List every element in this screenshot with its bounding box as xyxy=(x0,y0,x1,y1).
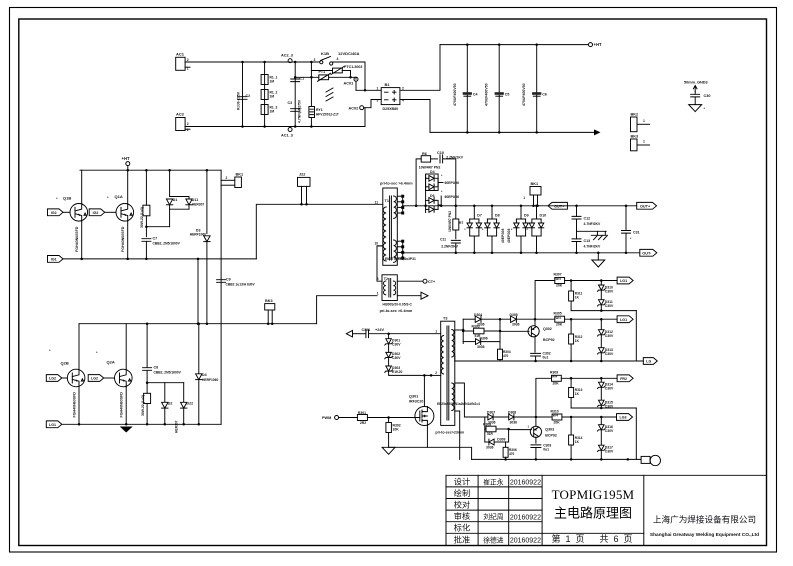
resistor R8 xyxy=(144,393,151,403)
svg-text:W/4: W/4 xyxy=(552,375,558,379)
wire secondary bottom rail xyxy=(403,252,640,254)
svg-text:C30V: C30V xyxy=(605,290,614,294)
connector AC1 xyxy=(176,57,185,70)
svg-text:LG1: LG1 xyxy=(620,279,627,283)
svg-text:审核: 审核 xyxy=(454,511,470,521)
svg-text:FGH40N60SFD: FGH40N60SFD xyxy=(73,392,77,418)
wire snubber top loop xyxy=(416,159,421,206)
wire D2 bar xyxy=(147,382,184,384)
svg-text:470: 470 xyxy=(509,452,515,456)
svg-text:30W-22 (1u3): 30W-22 (1u3) xyxy=(140,207,144,228)
svg-text:R6: R6 xyxy=(422,152,427,156)
resistor R303 xyxy=(463,330,473,332)
capacitor C31 xyxy=(625,205,628,208)
svg-text:J22: J22 xyxy=(299,173,305,177)
capacitor C7 xyxy=(142,239,151,242)
svg-text:50mm_GND3: 50mm_GND3 xyxy=(684,81,708,85)
svg-text:1M: 1M xyxy=(270,95,275,99)
wire blockC input from T301 xyxy=(455,383,473,417)
svg-text:1M: 1M xyxy=(270,110,275,114)
svg-text:C30V: C30V xyxy=(392,343,401,347)
zener D302 xyxy=(388,345,390,353)
zener D310 xyxy=(600,281,602,285)
resistor R6 xyxy=(421,156,430,162)
svg-text:Q1B: Q1B xyxy=(63,196,71,201)
svg-text:FGH40N60SFD: FGH40N60SFD xyxy=(120,392,124,418)
terminal CT+ xyxy=(397,280,423,282)
svg-text:R7: R7 xyxy=(459,221,463,225)
wire blockA left rail xyxy=(462,319,464,343)
svg-text:B1: B1 xyxy=(385,82,391,87)
svg-text:BK1: BK1 xyxy=(236,172,244,176)
svg-text:FR2: FR2 xyxy=(620,377,627,381)
capacitor C303 xyxy=(531,445,541,448)
svg-text:IG1: IG1 xyxy=(51,258,57,262)
svg-text:D307: D307 xyxy=(487,410,495,414)
capacitor C1 xyxy=(291,79,300,82)
svg-text:第 1 页 共 6 页: 第 1 页 共 6 页 xyxy=(551,533,632,544)
svg-text:10W/4R7 PN2: 10W/4R7 PN2 xyxy=(448,211,452,232)
svg-text:徐德进: 徐德进 xyxy=(483,535,504,544)
gate flag IG2 Q1A xyxy=(89,209,105,216)
zener D316 xyxy=(600,417,602,425)
svg-text:C7: C7 xyxy=(153,236,158,240)
resistor R7 xyxy=(455,206,457,219)
svg-text:C30V: C30V xyxy=(605,450,614,454)
svg-text:4.7NF/2KV: 4.7NF/2KV xyxy=(584,244,602,248)
diode D11 xyxy=(186,199,192,205)
transformer T301 xyxy=(441,321,455,425)
T1 secondary pins top xyxy=(397,195,402,197)
rectifier diode pair D10 xyxy=(535,205,538,208)
svg-text:40EPS08: 40EPS08 xyxy=(501,229,505,243)
wire node to C1 line xyxy=(294,62,296,127)
svg-text:51R: 51R xyxy=(487,432,494,436)
svg-text:D1: D1 xyxy=(173,198,178,202)
node AC2_3 xyxy=(288,59,292,63)
svg-text:1: 1 xyxy=(523,196,525,200)
wire AC02 to bridge xyxy=(364,108,366,127)
node AC01 xyxy=(354,77,358,81)
svg-text:崔正永: 崔正永 xyxy=(483,477,504,486)
net flag blockA return xyxy=(643,358,657,365)
svg-text:20160922: 20160922 xyxy=(510,514,541,521)
transformer T2 xyxy=(382,275,397,301)
svg-text:LG: LG xyxy=(646,360,651,364)
relay coil RY1 xyxy=(309,107,315,118)
wire rail corner to BK1 line xyxy=(220,170,222,424)
svg-text:C6: C6 xyxy=(542,93,547,97)
rectifier diode pair D9 xyxy=(520,205,523,208)
svg-text:30W-22 (1u3): 30W-22 (1u3) xyxy=(141,395,145,416)
resistor R4 snubber xyxy=(145,169,148,172)
bridge rectifier B1 xyxy=(381,88,400,105)
svg-text:BCP92: BCP92 xyxy=(543,338,555,342)
svg-text:Q301: Q301 xyxy=(409,395,418,399)
svg-text:470UF400V50: 470UF400V50 xyxy=(453,83,457,106)
svg-text:1: 1 xyxy=(643,140,645,144)
svg-text:10W/4R7 PN2: 10W/4R7 PN2 xyxy=(419,165,441,169)
svg-text:BK3: BK3 xyxy=(631,135,639,139)
svg-text:设计: 设计 xyxy=(454,476,470,486)
svg-text:T3: T3 xyxy=(443,317,447,321)
svg-text:1: 1 xyxy=(377,87,379,91)
svg-text:BCP92: BCP92 xyxy=(545,434,557,438)
title block outline xyxy=(446,475,767,545)
wire blockA bottom rail xyxy=(455,360,644,362)
svg-text:K1B: K1B xyxy=(321,51,329,56)
node AC02 xyxy=(360,106,364,110)
svg-text:CBB2, 2N5/1600V: CBB2, 2N5/1600V xyxy=(153,241,181,245)
svg-text:FGH40N60SFD: FGH40N60SFD xyxy=(121,226,125,252)
power flag +24V xyxy=(346,330,352,337)
wire D pair to R4 line xyxy=(169,209,171,227)
svg-text:3036: 3036 xyxy=(512,323,520,327)
svg-text:20K: 20K xyxy=(554,420,561,424)
svg-text:Shanghai Greatway Welding Equi: Shanghai Greatway Welding Equipment CO.,… xyxy=(650,532,759,538)
svg-text:D9: D9 xyxy=(524,214,529,218)
svg-text:绘制: 绘制 xyxy=(454,488,470,498)
connector BK3 top right xyxy=(631,139,638,151)
svg-text:D304: D304 xyxy=(474,313,482,317)
svg-text:D8: D8 xyxy=(495,214,500,218)
svg-text:C10: C10 xyxy=(437,151,444,155)
capacitor C8 snubber xyxy=(146,322,149,325)
svg-text:D25XB80: D25XB80 xyxy=(383,107,399,111)
zener D303 xyxy=(388,358,390,366)
capacitor C30 xyxy=(694,92,696,95)
resistor R312 xyxy=(570,319,572,334)
capacitor C10 xyxy=(440,155,443,163)
svg-text:R308: R308 xyxy=(483,422,491,426)
emitter rail lower (LG1) xyxy=(46,421,62,428)
svg-text:OUT+: OUT+ xyxy=(554,205,565,209)
svg-text:CT+: CT+ xyxy=(428,280,436,284)
svg-text:W/4: W/4 xyxy=(556,277,562,281)
rectifier diode pair D8 xyxy=(491,205,494,208)
net flag LG3 xyxy=(617,414,633,421)
svg-text:3036: 3036 xyxy=(510,421,518,425)
svg-text:OUT+: OUT+ xyxy=(640,205,651,209)
svg-text:3: 3 xyxy=(314,58,316,62)
ground under output rail xyxy=(597,253,599,260)
resistor R305 xyxy=(555,316,565,322)
svg-text:1: 1 xyxy=(435,330,437,334)
emitter rail upper (IG1) xyxy=(48,256,64,263)
capacitor C2 xyxy=(242,62,244,127)
wire blockC bottom rail xyxy=(472,458,641,460)
title block column lines xyxy=(478,475,644,545)
svg-text:11: 11 xyxy=(375,201,379,205)
ground under R302 xyxy=(382,447,395,454)
svg-text:470UF400V50: 470UF400V50 xyxy=(485,83,489,106)
power flag +HT upper rail xyxy=(126,162,130,166)
net flag OUT+ outer xyxy=(637,202,657,209)
svg-text:HI300S/20-0.05/3-C: HI300S/20-0.05/3-C xyxy=(383,302,413,306)
connector output with circle xyxy=(641,456,650,463)
ground under Q2A xyxy=(120,427,133,433)
svg-text:C12: C12 xyxy=(584,217,591,221)
capacitor C4 bus xyxy=(466,45,468,133)
svg-text:BK3: BK3 xyxy=(265,299,273,303)
resistor R1_1 xyxy=(264,62,266,127)
resistor R1_3 xyxy=(261,105,268,115)
capacitor C3 xyxy=(291,109,300,112)
svg-text:1K: 1K xyxy=(575,296,580,300)
wire AC01 to bridge xyxy=(355,81,357,90)
wire blockA mid vertical xyxy=(499,319,501,349)
resistor R308 xyxy=(485,428,486,430)
diode D304 xyxy=(475,316,481,322)
T1 primary pins xyxy=(377,245,383,247)
svg-text:EE25c2006-N1a2b/N1d/N2=4: EE25c2006-N1a2b/N1d/N2=4 xyxy=(437,402,480,406)
svg-text:0u1: 0u1 xyxy=(543,356,549,360)
svg-text:C30: C30 xyxy=(704,94,711,98)
svg-text:12VDC/40A: 12VDC/40A xyxy=(338,51,359,56)
svg-text:C301: C301 xyxy=(362,328,371,332)
diode D305 xyxy=(511,316,517,322)
capacitor C13 xyxy=(572,239,581,242)
diode D4 lower xyxy=(198,324,200,374)
svg-text:W/4: W/4 xyxy=(556,316,562,320)
svg-text:40EPS08: 40EPS08 xyxy=(507,229,511,243)
svg-text:C30V: C30V xyxy=(392,356,401,360)
svg-text:D305: D305 xyxy=(510,313,518,317)
svg-text:PTC1-3003: PTC1-3003 xyxy=(344,65,362,69)
svg-text:IRF3C20: IRF3C20 xyxy=(409,400,423,404)
svg-text:20K: 20K xyxy=(553,382,560,386)
svg-text:20K: 20K xyxy=(556,284,563,288)
wire mid node C12 C13 xyxy=(577,230,607,232)
svg-text:刘纪周: 刘纪周 xyxy=(483,512,503,521)
svg-text:20160922: 20160922 xyxy=(510,480,541,487)
terminal +HT top xyxy=(589,43,593,47)
svg-text:C31: C31 xyxy=(633,231,640,235)
power arrow bus bottom xyxy=(594,129,601,135)
resistor R306 xyxy=(505,442,507,447)
svg-text:470: 470 xyxy=(503,354,509,358)
svg-text:470UF400V50: 470UF400V50 xyxy=(522,83,526,106)
svg-text:BK2: BK2 xyxy=(631,113,639,117)
svg-text:60EPU06: 60EPU06 xyxy=(445,195,460,199)
wire block0 bottom rail xyxy=(571,310,636,312)
svg-text:AC02: AC02 xyxy=(349,107,359,111)
svg-text:HERF1060: HERF1060 xyxy=(190,233,206,237)
svg-text:D2: D2 xyxy=(168,402,173,406)
svg-text:3: 3 xyxy=(377,277,379,281)
svg-text:PWM: PWM xyxy=(322,416,331,420)
svg-text:HERF1060: HERF1060 xyxy=(202,378,218,382)
transistor Q302 xyxy=(528,326,539,337)
resistor R309 xyxy=(536,378,552,417)
capacitor C302 xyxy=(531,353,541,356)
ferrite bead BK1 output xyxy=(530,187,541,196)
svg-text:T2: T2 xyxy=(384,277,388,281)
svg-text:2R2: 2R2 xyxy=(360,421,366,425)
wire secondary top rail xyxy=(403,205,637,207)
resistor R307 xyxy=(535,281,555,320)
svg-text:CBB2 1u13/A 630V: CBB2 1u13/A 630V xyxy=(226,283,256,287)
connector BK1 xyxy=(235,177,242,188)
svg-text:2: 2 xyxy=(187,122,189,126)
svg-text:4.7NF/(M)275V: 4.7NF/(M)275V xyxy=(298,99,302,123)
svg-text:IG2: IG2 xyxy=(51,211,57,215)
svg-text:RJJ6-275V: RJJ6-275V xyxy=(237,91,241,110)
svg-text:C9: C9 xyxy=(226,277,231,281)
svg-text:D10: D10 xyxy=(540,214,547,218)
resistor R311 xyxy=(570,281,572,292)
zener D301 xyxy=(388,334,390,339)
svg-text:标化: 标化 xyxy=(454,523,470,533)
wire K1B to bridge corner xyxy=(364,62,366,90)
svg-text:HER307: HER307 xyxy=(192,203,205,207)
svg-text:20160922: 20160922 xyxy=(510,538,541,545)
diode D3 xyxy=(206,169,209,172)
wire AC1 to node xyxy=(185,61,290,63)
svg-text:AC1_3: AC1_3 xyxy=(281,134,293,138)
diode D306 xyxy=(463,341,475,343)
svg-text:AC01: AC01 xyxy=(344,82,354,86)
capacitor C12 xyxy=(575,205,578,208)
svg-text:C5: C5 xyxy=(505,93,510,97)
zener D313 xyxy=(600,336,602,348)
svg-text:1K: 1K xyxy=(575,339,580,343)
svg-text:OUT-: OUT- xyxy=(642,252,652,256)
svg-text:4.7NF/2KV: 4.7NF/2KV xyxy=(584,222,602,226)
svg-text:C11: C11 xyxy=(440,238,446,242)
svg-text:Q2A: Q2A xyxy=(107,360,115,365)
net flag FR2 xyxy=(617,375,633,382)
T301 bottom secondary wires xyxy=(455,411,460,459)
svg-text:3036: 3036 xyxy=(486,446,494,450)
svg-text:C30V: C30V xyxy=(605,352,614,356)
diode D2 xyxy=(164,383,166,402)
svg-text:D4: D4 xyxy=(430,170,435,174)
svg-text:C2: C2 xyxy=(246,94,251,98)
thermistor PT1 xyxy=(319,75,329,80)
svg-text:3: 3 xyxy=(377,99,379,103)
wire lower rail to T2 xyxy=(317,296,377,324)
svg-text:1M: 1M xyxy=(270,80,275,84)
capacitor C6 bus xyxy=(536,45,538,133)
svg-text:R301: R301 xyxy=(358,411,366,415)
svg-text:校对: 校对 xyxy=(454,500,470,510)
svg-text:4: 4 xyxy=(337,57,339,61)
svg-text:3036: 3036 xyxy=(477,345,485,349)
svg-text:Q2B: Q2B xyxy=(61,361,69,366)
zener D315 xyxy=(600,388,602,400)
svg-text:Q302: Q302 xyxy=(543,327,552,331)
svg-text:LG1: LG1 xyxy=(620,318,627,322)
svg-text:T1: T1 xyxy=(385,199,389,203)
svg-text:0u1: 0u1 xyxy=(543,447,549,451)
svg-text:LG2: LG2 xyxy=(91,377,98,381)
svg-text:+24V: +24V xyxy=(375,328,384,332)
svg-text:IG2: IG2 xyxy=(93,211,99,215)
svg-text:pri-to-sec >6.4mm: pri-to-sec >6.4mm xyxy=(380,309,413,313)
svg-text:+HT: +HT xyxy=(594,42,602,47)
svg-text:BK1: BK1 xyxy=(531,182,539,186)
transistor Q303 xyxy=(530,426,541,437)
wire blockB bottom rail xyxy=(571,407,636,409)
gate flag LG2 Q2A xyxy=(88,375,104,382)
svg-text:20K: 20K xyxy=(556,323,563,327)
svg-text:D7: D7 xyxy=(477,214,482,218)
svg-text:C30V: C30V xyxy=(605,334,614,338)
svg-text:pri-to-sec >6.4mm: pri-to-sec >6.4mm xyxy=(380,182,413,186)
capacitor C9 xyxy=(217,280,226,283)
capacitor C301 xyxy=(353,333,366,335)
connector BK2 top right xyxy=(631,117,638,132)
resistor R304 xyxy=(498,349,503,359)
svg-text:E1K20: E1K20 xyxy=(392,370,402,374)
svg-text:PT1: PT1 xyxy=(319,70,326,74)
resistor R313 xyxy=(570,378,572,387)
wire bridge minus to bus xyxy=(400,100,430,133)
svg-text:LG2: LG2 xyxy=(49,377,56,381)
svg-text:W/4: W/4 xyxy=(553,413,559,417)
rectifier diode pair D7 xyxy=(473,205,476,208)
svg-text:D308: D308 xyxy=(508,410,516,414)
T1 secondary pins bottom xyxy=(397,240,402,242)
svg-text:TOPMIG195M: TOPMIG195M xyxy=(552,487,635,502)
zener D311 xyxy=(600,291,602,300)
resistor R302 xyxy=(388,418,390,423)
chassis ground symbol xyxy=(591,231,606,235)
svg-text:C30V: C30V xyxy=(605,304,614,308)
wire AC2 to node xyxy=(185,126,365,128)
diode D307 xyxy=(488,414,493,420)
resistor R314 xyxy=(570,417,572,435)
resistor R310 xyxy=(552,414,562,420)
thermistor PTC1 xyxy=(333,68,343,73)
svg-text:批准: 批准 xyxy=(454,534,470,544)
zener D317 xyxy=(600,431,602,446)
resistor R301 xyxy=(357,415,367,421)
wire blockC left rail xyxy=(484,417,486,442)
T301 secondary top wires xyxy=(455,329,463,331)
Q301 source wire xyxy=(389,426,428,448)
svg-text:+HT: +HT xyxy=(122,156,130,161)
svg-text:D11: D11 xyxy=(192,198,198,202)
svg-text:Q303: Q303 xyxy=(545,428,554,432)
svg-text:C30V: C30V xyxy=(605,429,614,433)
node AC1_3 xyxy=(288,128,292,132)
svg-text:CBB2, 2N5/1600V: CBB2, 2N5/1600V xyxy=(154,370,182,374)
connector BK3 lower rail xyxy=(265,304,275,310)
diode D22 xyxy=(183,383,185,402)
svg-text:10K: 10K xyxy=(393,428,400,432)
svg-text:2: 2 xyxy=(435,371,437,375)
T2 pins and wires xyxy=(377,246,383,281)
relay linkage dashes xyxy=(326,88,333,101)
svg-text:AC1: AC1 xyxy=(176,52,185,57)
diode D309 xyxy=(485,441,488,443)
svg-text:D22: D22 xyxy=(187,402,194,406)
svg-text:HFV15/012-Z1T: HFV15/012-Z1T xyxy=(316,112,339,116)
wire vertical 198 between blocks xyxy=(197,258,200,261)
resistor R1_2 xyxy=(261,90,268,100)
svg-text:RY1: RY1 xyxy=(316,108,323,112)
svg-text:2: 2 xyxy=(226,176,228,180)
wire upper collector rail xyxy=(80,169,221,171)
ferrite bead J22 xyxy=(298,177,311,186)
transformer T1 xyxy=(383,188,398,265)
net flag OUT- xyxy=(640,249,657,256)
zener D312 xyxy=(600,319,602,329)
wire DC bus top xyxy=(440,44,589,46)
connector AC2 xyxy=(176,118,185,131)
